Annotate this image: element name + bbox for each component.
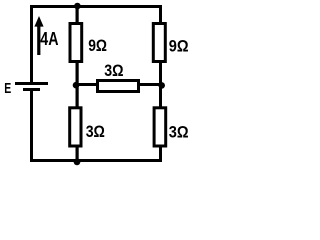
svg-text:3Ω: 3Ω [104, 61, 123, 80]
svg-text:9Ω: 9Ω [169, 36, 189, 55]
battery E long plate [15, 82, 48, 85]
resistor R2 9Ω (right top) [152, 22, 167, 63]
wire right branch [159, 5, 162, 161]
junction node top [74, 3, 81, 10]
junction node left middle [73, 82, 80, 89]
wire middle branch [76, 6, 79, 161]
battery E short plate [23, 88, 40, 91]
wire bottom [30, 159, 162, 162]
resistor R1 9Ω (middle top) [69, 22, 84, 63]
wire left branch upper [30, 5, 33, 82]
svg-text:3Ω: 3Ω [169, 122, 189, 141]
wire top [30, 5, 162, 8]
wire middle horizontal [76, 83, 163, 86]
resistor R5 3Ω (right bottom) [153, 106, 168, 147]
current source arrow 4A [34, 16, 43, 55]
svg-text:E: E [4, 80, 11, 97]
resistor R4 3Ω (middle bottom) [68, 106, 82, 147]
svg-text:9Ω: 9Ω [88, 36, 107, 55]
wire left branch lower [30, 91, 33, 162]
svg-text:3Ω: 3Ω [86, 122, 105, 141]
junction node bottom [74, 158, 81, 165]
resistor R3 3Ω (middle horizontal) [96, 79, 140, 93]
junction node right middle [158, 82, 165, 89]
svg-text:4A: 4A [40, 29, 58, 49]
